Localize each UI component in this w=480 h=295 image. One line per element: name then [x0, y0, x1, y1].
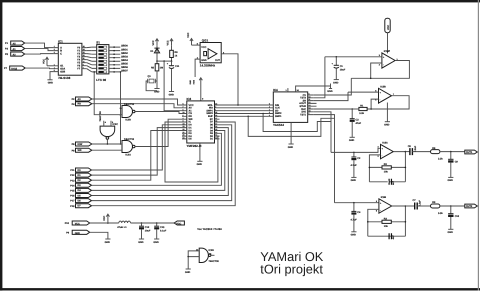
ground below R5 — [154, 89, 160, 94]
svg-text:IC6A: IC6A — [382, 141, 388, 144]
connector P12 D1 — [70, 173, 91, 177]
wire D0 to IC3 — [92, 125, 183, 170]
feedback junction dots — [369, 167, 407, 169]
svg-text:10k: 10k — [384, 225, 389, 228]
svg-text:WR: WR — [78, 149, 82, 152]
svg-text:SBD4: SBD4 — [121, 59, 128, 62]
connector P2 A0 — [72, 97, 92, 101]
svg-text:SMP1: SMP1 — [275, 115, 282, 118]
ground below C9 — [448, 177, 454, 182]
svg-text:P17: P17 — [70, 200, 75, 203]
svg-text:C8: C8 — [408, 145, 412, 148]
node dots on rail — [156, 60, 172, 62]
svg-text:GND: GND — [351, 234, 357, 237]
svg-text:D1: D1 — [150, 50, 154, 53]
wire C7 to R9 — [417, 205, 430, 207]
VCC symbol left of D1 — [152, 39, 159, 46]
svg-text:P18: P18 — [70, 205, 75, 208]
svg-text:GND: GND — [448, 179, 454, 182]
wire D4 to IC3 right side — [92, 131, 225, 191]
IC4 right pin stubs — [308, 95, 317, 115]
wires IC1 to DIP switch (crossing) — [87, 47, 92, 72]
ground below IC4 — [288, 144, 294, 149]
svg-text:IOW: IOW — [78, 143, 84, 146]
wire QG1 OUT to DAC clock — [221, 54, 238, 105]
power rail wire — [90, 222, 119, 224]
svg-text:GND: GND — [384, 124, 390, 127]
wire DAC aout to op1 — [314, 57, 325, 98]
svg-text:4n7: 4n7 — [392, 180, 395, 185]
svg-text:0.1uF: 0.1uF — [160, 230, 167, 233]
wire D5 to IC3 right side — [92, 128, 229, 196]
mixer stage 1 input wire — [331, 148, 381, 152]
wire DAC out1 feedback return — [314, 78, 352, 95]
svg-text:QG1: QG1 — [202, 39, 209, 43]
wire C8 to R8 — [412, 151, 430, 153]
op4 output node — [405, 205, 407, 207]
nand gate IC2C rotated down — [99, 111, 118, 140]
IC1 left pin stubs — [53, 48, 58, 72]
IC1 right pin stubs Y0-Y7 — [82, 48, 87, 69]
svg-text:D5: D5 — [189, 138, 193, 141]
feedback junction dots — [367, 221, 406, 223]
svg-text:4n7: 4n7 — [392, 235, 395, 240]
svg-text:P7: P7 — [4, 67, 8, 70]
DIP switch S1 — [96, 41, 109, 83]
capacitor C2 — [351, 152, 362, 178]
wire A5 to IC1 pin A — [25, 43, 54, 48]
wire VCC to QG1 pin 8 — [192, 44, 201, 46]
VCC symbol above R6 — [167, 39, 174, 46]
svg-text:C12: C12 — [145, 226, 150, 229]
wire WR to IC2A input 2 — [92, 149, 122, 151]
clock rail wire — [157, 60, 172, 62]
svg-text:GND: GND — [138, 241, 144, 244]
resistor R6 — [170, 46, 179, 61]
connector P7 IOCS — [4, 66, 25, 71]
wires IC3 right pins to IC4 left pins — [220, 105, 269, 116]
wire DAC sb to op2 — [314, 92, 348, 101]
connector P9 GND — [66, 230, 90, 235]
svg-text:SBD6: SBD6 — [121, 66, 128, 69]
svg-text:tOri projekt: tOri projekt — [260, 261, 323, 276]
svg-text:+: + — [383, 56, 385, 59]
svg-text:-: - — [382, 155, 383, 158]
svg-text:C13: C13 — [160, 226, 165, 229]
svg-text:47uF: 47uF — [356, 122, 362, 125]
svg-text:3.3k: 3.3k — [359, 112, 364, 115]
capacitor C4 — [351, 202, 362, 232]
op2 ground stub — [386, 103, 388, 122]
ground below C11 — [169, 92, 175, 97]
IC2C output to IOW line — [106, 139, 108, 144]
connector P14 D3 — [70, 183, 91, 187]
connector P17 D6 — [70, 199, 91, 203]
connector P3 A1 — [5, 47, 25, 52]
svg-text:74HCT00: 74HCT00 — [209, 260, 220, 263]
capacitor C10 — [448, 206, 460, 229]
svg-text:+: + — [380, 202, 382, 205]
svg-text:P3: P3 — [5, 48, 9, 51]
wire RD to IC3 — [92, 104, 182, 108]
connector P18 D7 — [70, 204, 91, 208]
wire D3 to IC3 right side — [92, 133, 222, 185]
svg-text:P14: P14 — [70, 184, 75, 187]
svg-text:IC2C: IC2C — [113, 123, 119, 126]
ground below IC2D — [185, 269, 191, 274]
svg-text:G2B: G2B — [60, 71, 65, 74]
IC2A output riser to IC3 — [135, 119, 182, 146]
svg-text:74HCT00: 74HCT00 — [124, 103, 135, 106]
op3 feedback loop with R2 — [369, 152, 405, 182]
svg-text:GND: GND — [333, 81, 339, 84]
resistor R9 — [431, 201, 444, 215]
svg-text:74HCT00: 74HCT00 — [99, 111, 102, 122]
wire R9 to output node — [440, 205, 465, 207]
net labels SBD0-SBD7 — [121, 45, 128, 73]
VCC symbol for IC1 G1 — [42, 57, 48, 66]
ground below IC3 — [197, 161, 203, 166]
oscillator QG1 14.318MHz — [197, 39, 225, 68]
resistor R1 — [359, 105, 367, 116]
IC4 top pin 16 to small gnd — [296, 86, 331, 92]
wire R5 to ground — [156, 71, 158, 88]
junction on DIP wire — [93, 71, 95, 73]
resistor R8 — [431, 147, 444, 161]
mixer stage 2 input wire — [335, 202, 379, 204]
IC2D input wires tied low — [188, 251, 199, 257]
capacitor C3 — [350, 109, 362, 137]
svg-text:P2: P2 — [72, 98, 76, 101]
svg-text:SBD0: SBD0 — [121, 45, 128, 48]
op3 inverting input wire — [369, 155, 380, 168]
svg-text:VCC: VCC — [167, 40, 170, 45]
IC4 left pin stubs — [268, 105, 273, 116]
junction dots on DAC input lines — [237, 104, 264, 117]
output connector OUT2 — [465, 204, 478, 208]
svg-text:OUT1: OUT1 — [466, 151, 473, 154]
svg-text:D1: D1 — [210, 138, 214, 141]
ground below C2 — [351, 177, 357, 182]
op2 feedback loop — [367, 96, 409, 109]
svg-text:LTC 08: LTC 08 — [96, 78, 106, 82]
junction dots on DIP right pins — [113, 46, 115, 72]
svg-text:C9: C9 — [455, 161, 459, 164]
svg-text:2.2uF: 2.2uF — [414, 145, 417, 152]
DIP right pin stubs and wires to net labels — [109, 47, 120, 72]
wire to ground — [187, 257, 189, 269]
svg-text:47uH L1: 47uH L1 — [117, 226, 127, 229]
capacitor C13 — [154, 223, 167, 239]
svg-text:P13: P13 — [70, 179, 75, 182]
svg-text:10k: 10k — [384, 171, 389, 174]
IC4 top pin 1 stub — [287, 88, 289, 92]
svg-text:3.3k: 3.3k — [438, 158, 443, 161]
op-amp IC5A — [379, 50, 399, 68]
svg-text:P9: P9 — [66, 231, 70, 234]
svg-text:10uF: 10uF — [340, 69, 346, 72]
svg-text:IC1: IC1 — [58, 39, 63, 43]
wire from DIP pin column down to IC2B input 2 — [94, 72, 122, 115]
svg-text:Vcc YAC512 i TL284: Vcc YAC512 i TL284 — [197, 228, 222, 231]
wire IOCS to IC1 pin G2A — [25, 67, 53, 70]
IC2B input 1 stub — [121, 107, 123, 109]
resistor R2 — [382, 163, 391, 174]
IC2B output to IC3 — [135, 112, 182, 114]
IC4 bottom ground stub — [290, 122, 292, 143]
capacitor C8 — [408, 145, 417, 155]
svg-text:GND: GND — [448, 231, 454, 234]
svg-text:2.2uF: 2.2uF — [419, 200, 422, 207]
svg-text:GND: GND — [169, 93, 175, 96]
svg-text:SBD7: SBD7 — [121, 70, 128, 73]
nand gate IC2D — [196, 248, 219, 263]
wire D7 to IC3 right side — [92, 122, 236, 206]
svg-text:C2: C2 — [357, 157, 361, 160]
wire DAC ch2 down to mixer 2 — [314, 115, 335, 203]
wire op1 +input — [325, 56, 382, 58]
svg-text:P8: P8 — [72, 149, 76, 152]
svg-text:10uF: 10uF — [145, 230, 151, 233]
svg-text:IC4: IC4 — [273, 88, 278, 92]
svg-text:GND: GND — [288, 146, 294, 149]
svg-text:+: + — [167, 63, 169, 66]
svg-text:VCC: VCC — [42, 59, 45, 64]
svg-text:GND: GND — [153, 241, 159, 244]
inductor L1 — [117, 221, 130, 229]
svg-text:OUT2: OUT2 — [466, 205, 473, 208]
svg-text:IC2A: IC2A — [125, 153, 131, 156]
op-amp IC6A — [378, 141, 394, 158]
wire G2B to ground — [50, 72, 53, 80]
svg-text:VCC: VCC — [103, 215, 106, 220]
svg-text:GND: GND — [349, 139, 355, 142]
op-amp IC6B — [376, 196, 392, 213]
connector P5 A2 — [5, 52, 25, 57]
ground below IC1 — [47, 80, 53, 85]
output connector OUT1 — [465, 150, 478, 154]
svg-text:RD: RD — [78, 103, 82, 106]
connector P16 D5 — [70, 194, 91, 198]
op3 output node — [405, 151, 407, 153]
nand gate IC2B — [120, 103, 135, 122]
vertical from SBD7 down to IC2B input 1 and IOW row — [120, 72, 122, 144]
capacitor C9 — [448, 152, 458, 178]
IC1 74LS138 decoder — [54, 39, 85, 80]
svg-text:VCC: VCC — [176, 223, 181, 226]
svg-text:S1: S1 — [96, 41, 100, 45]
svg-text:IC3: IC3 — [187, 97, 192, 101]
wire DAC ch1 down to mixer 1 — [314, 112, 331, 153]
VCC symbol on rail — [103, 214, 109, 224]
svg-text:2: 2 — [379, 63, 381, 66]
svg-text:GND: GND — [185, 271, 191, 274]
capacitor C11 — [167, 61, 180, 91]
svg-text:14.318MHz: 14.318MHz — [200, 64, 216, 68]
svg-text:VCC: VCC — [152, 40, 155, 45]
wire VCC to G1 — [47, 65, 53, 67]
svg-text:GND: GND — [201, 59, 207, 62]
nand gate IC2A — [122, 138, 135, 157]
svg-text:+: + — [382, 147, 384, 150]
svg-text:R5: R5 — [151, 67, 155, 70]
svg-text:YAC512: YAC512 — [273, 123, 284, 127]
op4 inverting input wire — [368, 209, 379, 222]
svg-text:IC2B: IC2B — [125, 118, 131, 121]
IC3 YMF262 — [183, 97, 218, 148]
ground below C13 — [153, 239, 159, 244]
capacitor C12 — [139, 223, 151, 239]
ground below C1 — [333, 80, 339, 85]
svg-text:VCC: VCC — [75, 223, 80, 226]
ground below C10 — [448, 229, 454, 234]
wire clock rail down to IC3 — [164, 61, 182, 111]
svg-text:C4: C4 — [357, 211, 361, 214]
wire IOW to IC2A input 1 — [92, 143, 122, 145]
svg-text:IOCS: IOCS — [11, 68, 17, 71]
svg-text:3.3k: 3.3k — [438, 212, 443, 215]
IC4 YAC512 DAC — [269, 88, 311, 127]
svg-text:7400: 7400 — [193, 79, 196, 84]
ground below C4 — [351, 232, 357, 237]
connector P11 D0 — [70, 168, 91, 172]
svg-text:TST1: TST1 — [300, 113, 307, 116]
wire IC3 loopback inner corner — [165, 122, 220, 182]
bias loop A below IC4 — [263, 114, 331, 132]
svg-text:P6: P6 — [72, 143, 76, 146]
svg-text:GND: GND — [351, 179, 357, 182]
svg-text:VCC: VCC — [187, 32, 190, 37]
svg-text:C1: C1 — [340, 65, 344, 68]
svg-text:C: C — [60, 53, 62, 56]
svg-text:SBD3: SBD3 — [121, 55, 128, 58]
ground below P9 wire — [105, 239, 111, 244]
ground below C12 — [138, 239, 144, 244]
svg-text:1k: 1k — [175, 54, 178, 57]
svg-text:GND: GND — [189, 80, 192, 85]
svg-text:IC6B: IC6B — [381, 196, 387, 199]
svg-text:74HCT00: 74HCT00 — [124, 138, 135, 141]
connector P4 RD — [72, 102, 92, 106]
svg-text:GND: GND — [75, 232, 81, 235]
op4 feedback loop with R3 — [368, 206, 406, 236]
wire to C7 — [405, 205, 415, 207]
IC3 ground stub — [199, 143, 201, 161]
connector P1 A5 — [5, 41, 25, 46]
wire A2 to IC1 pin C — [25, 53, 54, 55]
svg-text:Y7: Y7 — [77, 68, 81, 71]
svg-text:GND: GND — [48, 82, 54, 85]
svg-text:+: + — [332, 62, 334, 65]
svg-text:1M: 1M — [160, 67, 163, 70]
VCC symbol for oscillator — [187, 32, 193, 45]
IC2D output stub — [211, 254, 215, 256]
svg-text:74LS138: 74LS138 — [58, 76, 71, 80]
svg-text:P11: P11 — [70, 169, 75, 172]
svg-text:-: - — [380, 209, 381, 212]
svg-text:4: 4 — [105, 121, 107, 124]
wire R8 to output node — [440, 151, 465, 153]
wire D2 to IC3 — [92, 131, 183, 181]
VCC connector above op1 — [385, 18, 390, 33]
svg-text:GND: GND — [154, 90, 160, 93]
IC3 left pin stubs — [182, 105, 187, 139]
wire A0 to IC3 — [92, 99, 182, 105]
gnd net label rotated — [189, 79, 195, 84]
svg-text:GND: GND — [327, 90, 333, 93]
wire R1 to bias node — [352, 108, 359, 110]
svg-text:9: 9 — [202, 98, 204, 101]
svg-text:IC5B: IC5B — [380, 85, 386, 88]
svg-text:-: - — [380, 99, 381, 102]
svg-text:IC2D: IC2D — [209, 249, 215, 252]
wire to C8 — [405, 151, 410, 153]
svg-text:P10: P10 — [65, 222, 70, 225]
svg-text:P4: P4 — [72, 103, 76, 106]
crystal Q1 — [146, 75, 157, 91]
svg-text:SBD1: SBD1 — [121, 48, 128, 51]
wire A1 to IC1 pin B — [25, 49, 54, 51]
capacitor C5 — [388, 179, 395, 185]
svg-text:+: + — [380, 91, 382, 94]
capacitor C7 — [413, 199, 422, 209]
wire DAC bias to R1 — [314, 108, 353, 110]
wire D6 to IC3 right side — [92, 125, 232, 201]
IC3 right pin stubs — [215, 105, 220, 139]
svg-text:P5: P5 — [5, 53, 9, 56]
connector P15 D4 — [70, 188, 91, 192]
connector P8 WR — [72, 148, 92, 152]
svg-text:C10: C10 — [455, 215, 460, 218]
svg-text:GND: GND — [197, 163, 203, 166]
capacitor C6 — [389, 233, 395, 239]
svg-text:GND: GND — [105, 241, 111, 244]
svg-text:P16: P16 — [70, 195, 75, 198]
svg-text:IC5A: IC5A — [384, 50, 390, 53]
wire D1 to IC3 — [92, 128, 183, 176]
DIP left pin stubs — [92, 47, 97, 72]
connector P13 D2 — [70, 178, 91, 182]
op-amp IC5B — [375, 85, 395, 103]
svg-text:SBD5: SBD5 — [121, 62, 128, 65]
op1 feedback loop — [351, 61, 409, 79]
svg-text:-: - — [383, 63, 384, 66]
small ground top right of IC4 — [327, 84, 333, 94]
connector P10 VCC — [65, 221, 90, 226]
wire P9 to ground — [90, 232, 108, 239]
resistor R5 — [151, 61, 163, 71]
svg-text:P1: P1 — [5, 42, 9, 45]
resistor R3 — [382, 217, 391, 228]
svg-text:OUT: OUT — [215, 59, 221, 62]
ground below C3 — [349, 137, 355, 142]
wire VCC to op1 power — [387, 33, 389, 54]
svg-text:P15: P15 — [70, 190, 75, 193]
bias loop B below IC4 — [248, 116, 334, 136]
IC2C input stubs — [104, 121, 111, 126]
rail continues to VCC tag — [131, 222, 175, 224]
wire QG1 gnd pin down — [195, 59, 200, 77]
VCC net tag — [174, 221, 184, 226]
power arrow above IC3 — [199, 78, 202, 101]
diode D1 — [150, 46, 159, 61]
svg-text:P12: P12 — [70, 174, 75, 177]
svg-text:VCC: VCC — [201, 46, 206, 49]
svg-text:VCC: VCC — [387, 25, 390, 30]
wire op2 +input — [348, 91, 379, 93]
svg-text:C11: C11 — [175, 65, 180, 68]
svg-text:Q1: Q1 — [148, 75, 152, 78]
